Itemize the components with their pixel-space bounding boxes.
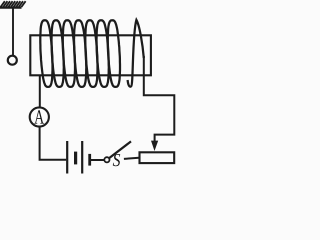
rheostat slider arrowhead: [151, 141, 158, 151]
coil turn 5: [85, 20, 97, 87]
coil turn 1: [40, 20, 52, 87]
wire coil right lead down: [144, 56, 175, 143]
wire coil left lead down to ammeter: [39, 75, 41, 107]
coil turn 3: [63, 20, 75, 87]
switch S pivot circle: [104, 157, 109, 162]
solenoid core rectangle L1: [30, 35, 151, 75]
wire battery to switch: [91, 159, 104, 161]
coil turn 6: [97, 20, 109, 87]
switch label S: [113, 154, 120, 166]
wire switch to rheostat: [124, 158, 139, 159]
rheostat resistor box R1: [140, 152, 175, 163]
ammeter A1 circle: [30, 107, 49, 126]
battery cell plate short 1: [74, 152, 77, 165]
wire ammeter to bottom corner: [40, 127, 67, 160]
coil turn 2: [52, 20, 64, 87]
switch lever blade: [109, 141, 131, 158]
ammeter label A: [34, 110, 44, 123]
battery cell plate long 1: [66, 141, 68, 174]
battery cell plate short 2: [88, 154, 91, 166]
coil turn 7: [108, 20, 120, 87]
coil turn 4: [74, 20, 86, 87]
ceiling hatching: [1, 1, 26, 7]
battery cell plate long 2: [81, 141, 83, 174]
ceiling support bar: [0, 6, 22, 8]
pendulum string wire: [12, 9, 14, 56]
pendulum bob: [8, 56, 17, 65]
coil turn 8: [128, 20, 144, 87]
